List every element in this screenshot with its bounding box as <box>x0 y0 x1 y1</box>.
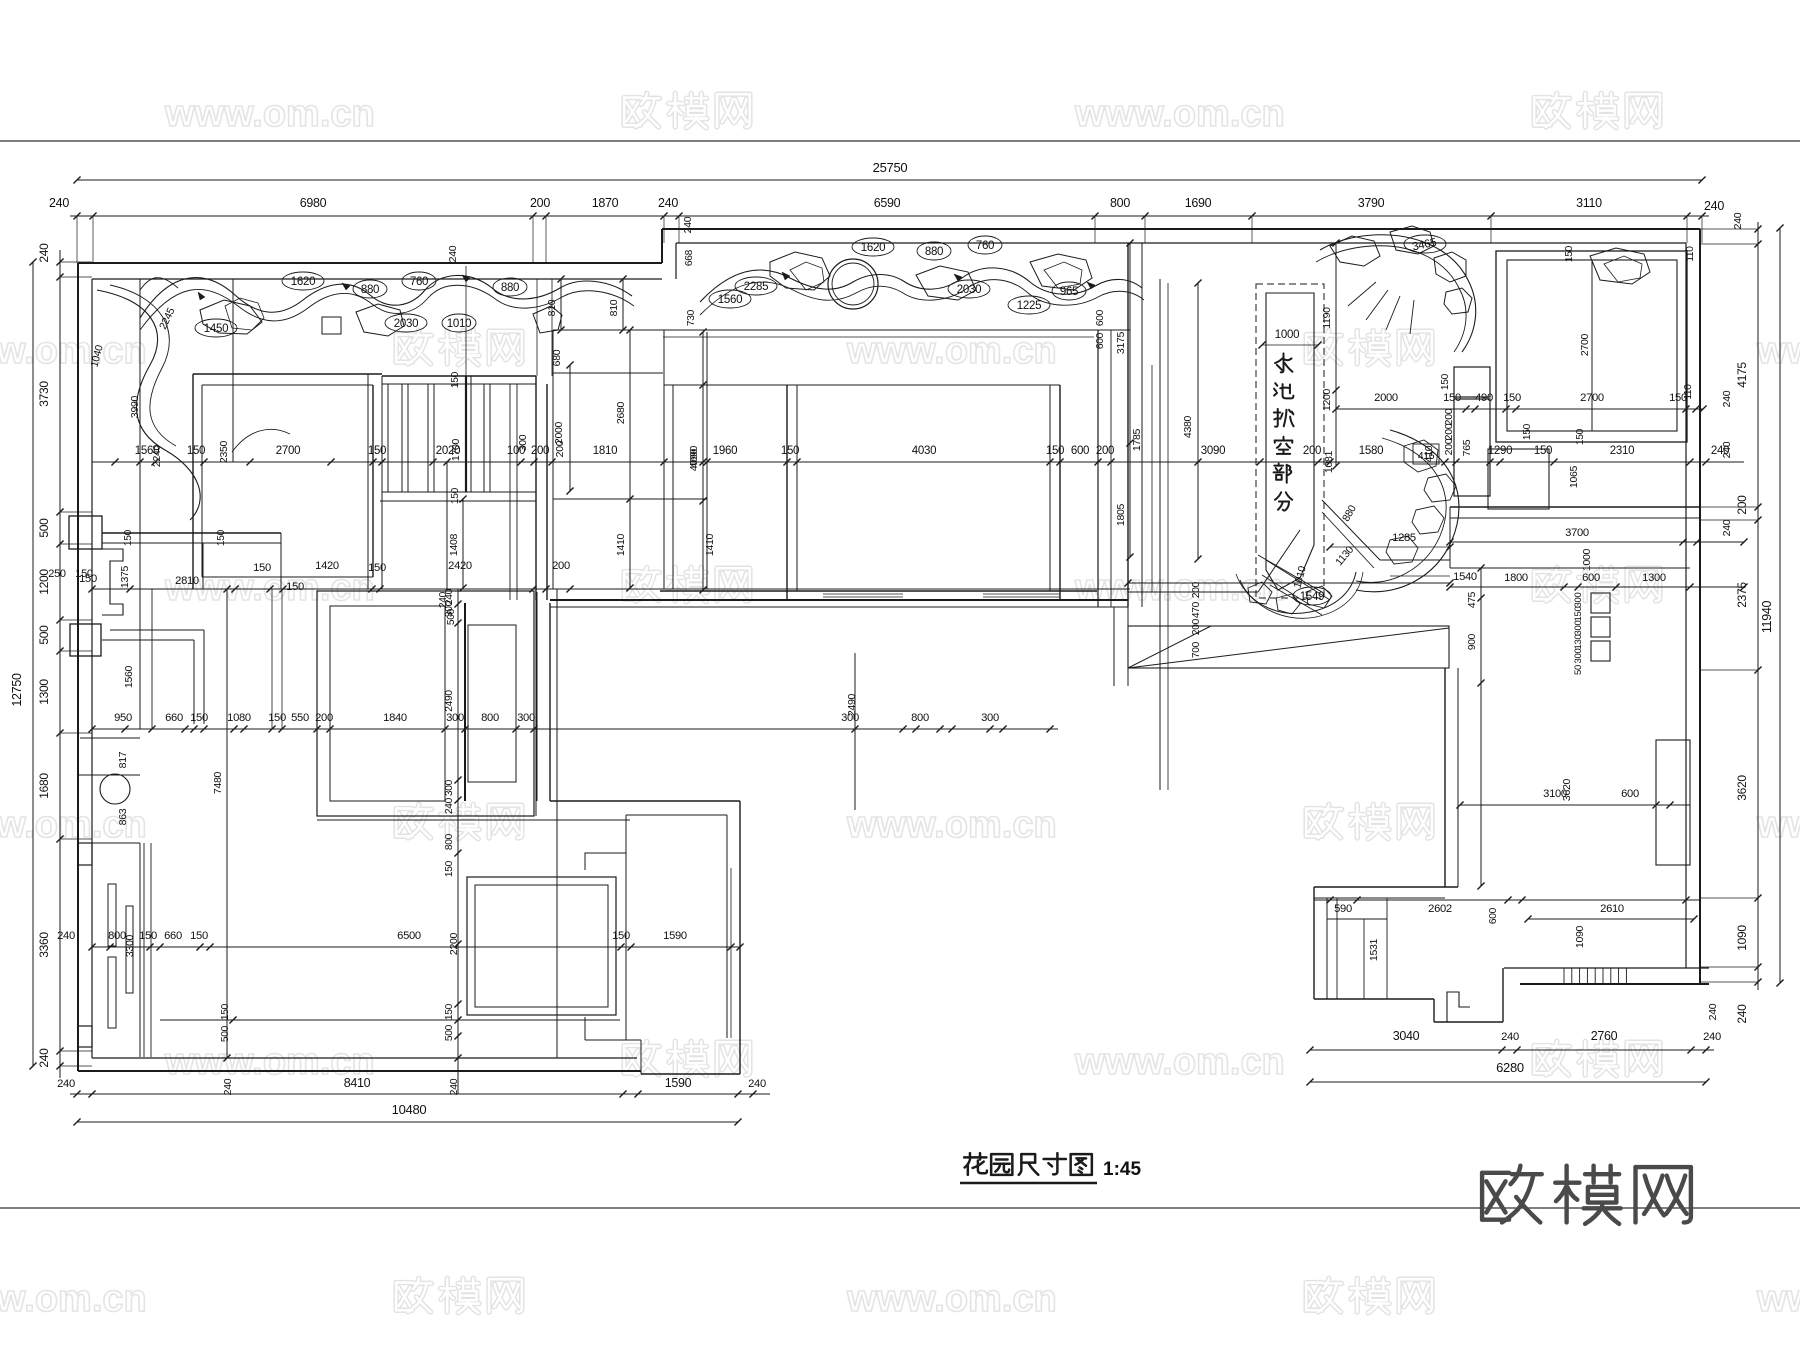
svg-text:240: 240 <box>1721 519 1733 536</box>
svg-text:500: 500 <box>220 1025 231 1042</box>
svg-text:150: 150 <box>190 712 208 724</box>
ramp area <box>1097 606 1128 608</box>
top dimension chain <box>70 215 1709 217</box>
svg-text:150: 150 <box>190 930 208 942</box>
svg-text:200: 200 <box>1096 445 1114 457</box>
svg-text:1805: 1805 <box>1115 503 1127 526</box>
svg-text:150: 150 <box>450 371 461 388</box>
svg-text:130: 130 <box>1573 635 1584 650</box>
pool diagonal walk <box>1322 500 1450 560</box>
svg-text:150: 150 <box>216 529 227 546</box>
svg-text:150: 150 <box>450 487 461 504</box>
svg-text:500: 500 <box>37 518 51 538</box>
left thin fixtures <box>108 884 116 946</box>
svg-text:300: 300 <box>1573 649 1584 664</box>
mid horizontal y820 <box>317 819 630 821</box>
svg-text:600: 600 <box>1582 572 1600 584</box>
svg-text:810: 810 <box>608 299 620 316</box>
room 4030 walls <box>786 385 788 600</box>
svg-text:1300: 1300 <box>1642 572 1666 584</box>
svg-text:150: 150 <box>253 562 271 574</box>
left dimension chain <box>59 250 61 1078</box>
svg-text:416: 416 <box>1418 450 1435 462</box>
stairs bottom <box>382 491 536 493</box>
svg-text:2030: 2030 <box>957 284 981 296</box>
svg-text:470: 470 <box>1191 601 1202 618</box>
svg-text:1800: 1800 <box>1504 572 1528 584</box>
svg-text:730: 730 <box>686 309 697 326</box>
svg-text:1620: 1620 <box>861 242 885 254</box>
svg-text:6980: 6980 <box>300 196 327 210</box>
svg-text:50: 50 <box>1573 665 1584 675</box>
svg-text:1870: 1870 <box>592 196 619 210</box>
svg-text:150: 150 <box>220 1003 231 1020</box>
svg-text:150: 150 <box>1046 445 1064 457</box>
right dim extension lines <box>1700 228 1758 230</box>
svg-text:3990: 3990 <box>129 395 141 418</box>
svg-text:10480: 10480 <box>392 1102 427 1117</box>
svg-text:2030: 2030 <box>394 318 418 330</box>
vine big S-curve left <box>97 290 200 520</box>
svg-text:2700: 2700 <box>1579 333 1591 356</box>
vertical dim x227 7480 <box>226 589 228 1058</box>
wall column markers <box>78 843 92 865</box>
terrace bottom right <box>1504 967 1709 969</box>
svg-text:863: 863 <box>117 808 129 825</box>
pool text <box>1275 353 1292 372</box>
rooms right of stairs <box>663 330 665 589</box>
svg-text:240: 240 <box>49 196 69 210</box>
svg-text:760: 760 <box>410 276 428 288</box>
vertical dim x1198 <box>1197 283 1199 559</box>
svg-text:3700: 3700 <box>1565 527 1589 539</box>
left band rooms 810 <box>552 330 554 589</box>
svg-text:1285: 1285 <box>1392 532 1416 544</box>
svg-text:1408: 1408 <box>448 533 460 556</box>
svg-text:240: 240 <box>37 243 51 263</box>
svg-text:11940: 11940 <box>1760 600 1774 633</box>
svg-text:3090: 3090 <box>1201 445 1225 457</box>
svg-text:240: 240 <box>57 930 75 942</box>
svg-text:817: 817 <box>117 751 129 768</box>
svg-text:150: 150 <box>1522 423 1533 440</box>
svg-text:240: 240 <box>37 1048 51 1068</box>
pool label 1000 <box>1262 344 1318 346</box>
svg-text:150: 150 <box>368 562 386 574</box>
svg-text:550: 550 <box>291 712 309 724</box>
bottom right outline <box>1314 998 1434 1000</box>
svg-text:2000: 2000 <box>553 421 565 444</box>
svg-text:110: 110 <box>1685 246 1696 262</box>
left dim extension lines <box>60 261 92 263</box>
wall box 1 <box>69 516 102 549</box>
svg-text:240: 240 <box>1501 1031 1519 1043</box>
svg-text:240: 240 <box>1711 445 1729 457</box>
vertical dims 810 <box>560 279 562 330</box>
svg-text:200: 200 <box>1191 618 1202 635</box>
svg-text:200: 200 <box>530 196 550 210</box>
svg-text:1:45: 1:45 <box>1103 1159 1141 1180</box>
svg-text:600: 600 <box>1095 332 1106 349</box>
pool bottom fan <box>1258 555 1322 592</box>
chain D y947 <box>92 946 740 948</box>
svg-text:1960: 1960 <box>713 445 737 457</box>
left wall <box>77 263 79 1071</box>
svg-text:300: 300 <box>981 712 999 724</box>
room 800 sub <box>468 625 516 782</box>
svg-text:600: 600 <box>1488 907 1499 924</box>
chain 1285 <box>1330 546 1450 548</box>
svg-text:300: 300 <box>444 779 455 796</box>
svg-text:2350: 2350 <box>218 440 230 463</box>
svg-text:150: 150 <box>1443 392 1461 404</box>
svg-text:965: 965 <box>1060 286 1078 298</box>
annex notch <box>585 853 626 870</box>
svg-text:2680: 2680 <box>615 401 627 424</box>
chain C y729 <box>92 728 1058 730</box>
wall right bottom section <box>1314 886 1458 888</box>
svg-text:4090: 4090 <box>688 448 700 471</box>
svg-text:200: 200 <box>1443 438 1455 455</box>
svg-text:668: 668 <box>684 249 695 266</box>
svg-text:4175: 4175 <box>1735 362 1749 388</box>
svg-text:2490: 2490 <box>846 693 858 716</box>
svg-text:150: 150 <box>444 860 455 877</box>
chain 1540 line <box>1128 582 1450 584</box>
vertical dim x630 <box>629 330 631 588</box>
vine hook top-right corner <box>1320 235 1476 352</box>
chain y408 top right <box>1336 408 1703 410</box>
rocks top-right arc <box>1330 236 1380 266</box>
svg-text:2375: 2375 <box>1735 582 1749 608</box>
svg-text:600: 600 <box>1095 309 1106 326</box>
svg-text:600: 600 <box>1621 788 1639 800</box>
svg-text:110: 110 <box>1683 384 1694 400</box>
svg-text:150: 150 <box>1440 373 1451 390</box>
svg-text:950: 950 <box>114 712 132 724</box>
svg-text:3175: 3175 <box>1115 331 1127 354</box>
svg-text:1190: 1190 <box>1321 307 1333 329</box>
svg-text:700: 700 <box>1191 641 1202 658</box>
chain 3100 <box>1460 804 1690 806</box>
label 416 box <box>1413 444 1439 464</box>
svg-text:240: 240 <box>57 1078 75 1090</box>
svg-text:150: 150 <box>1503 392 1521 404</box>
svg-text:1200: 1200 <box>1321 388 1333 411</box>
svg-text:150: 150 <box>444 1003 455 1020</box>
svg-text:2602: 2602 <box>1428 903 1452 915</box>
svg-text:880: 880 <box>501 282 519 294</box>
room 1290 box <box>1488 449 1549 509</box>
svg-text:150: 150 <box>286 581 304 593</box>
svg-text:1620: 1620 <box>291 276 315 288</box>
band dim extension verticals <box>465 266 467 376</box>
right 600 planter <box>1656 740 1690 865</box>
svg-text:7480: 7480 <box>212 771 224 794</box>
overall left dimension 12750 <box>32 262 34 1066</box>
chain A y462 <box>92 461 1744 463</box>
svg-text:1450: 1450 <box>204 323 228 335</box>
chain B y589 <box>92 588 1130 590</box>
right room 3090 edge <box>1128 591 1258 593</box>
room block 1840 outer <box>317 591 534 816</box>
svg-text:2760: 2760 <box>1591 1029 1618 1043</box>
mid-left wall y533 <box>102 532 281 534</box>
vine scroll left band <box>140 275 632 318</box>
svg-text:2700: 2700 <box>276 445 300 457</box>
line y1020 <box>160 1019 620 1021</box>
overall right dimension 11940 <box>1779 228 1781 983</box>
svg-text:240: 240 <box>444 797 455 814</box>
svg-text:300: 300 <box>1573 593 1584 608</box>
svg-text:4030: 4030 <box>912 445 936 457</box>
svg-text:660: 660 <box>164 930 182 942</box>
svg-text:660: 660 <box>165 712 183 724</box>
svg-text:300: 300 <box>517 434 529 451</box>
svg-text:680: 680 <box>551 349 563 366</box>
svg-text:1410: 1410 <box>615 533 627 556</box>
rocks right band <box>770 252 830 290</box>
big logo <box>1482 1166 1542 1223</box>
svg-text:2310: 2310 <box>1610 445 1634 457</box>
title garden dimension plan <box>964 1153 987 1175</box>
vertical dim 1190 <box>1335 243 1337 466</box>
svg-text:240: 240 <box>748 1078 766 1090</box>
sun rays <box>1366 290 1388 320</box>
svg-text:500: 500 <box>444 1024 455 1041</box>
svg-text:1560: 1560 <box>718 294 742 306</box>
svg-text:240: 240 <box>1732 212 1744 229</box>
bottom-left wall <box>78 1070 641 1072</box>
svg-text:2285: 2285 <box>744 281 768 293</box>
svg-text:475: 475 <box>1467 591 1478 608</box>
svg-text:600: 600 <box>1071 445 1089 457</box>
svg-text:800: 800 <box>911 712 929 724</box>
chain 3700 <box>1450 541 1744 543</box>
big right square room <box>1496 251 1687 442</box>
svg-text:2000: 2000 <box>1374 392 1398 404</box>
svg-text:3620: 3620 <box>1561 778 1573 801</box>
svg-text:3110: 3110 <box>1576 196 1602 210</box>
wall 200 right <box>1450 506 1700 508</box>
bottom-right overall 6280 <box>1310 1081 1706 1083</box>
svg-text:150: 150 <box>1564 245 1575 262</box>
svg-text:2420: 2420 <box>448 560 472 572</box>
svg-text:1680: 1680 <box>37 773 51 799</box>
wall 1098 1111 <box>1097 330 1099 607</box>
svg-text:800: 800 <box>481 712 499 724</box>
top dim extension lines <box>76 216 78 263</box>
terrace stairs hatch <box>1563 968 1565 984</box>
garden band inner edge left <box>139 279 141 729</box>
svg-text:1840: 1840 <box>383 712 407 724</box>
svg-text:150: 150 <box>781 445 799 457</box>
vine arrows right <box>782 272 790 280</box>
svg-text:8410: 8410 <box>344 1076 371 1090</box>
svg-text:1090: 1090 <box>1574 925 1586 948</box>
thick divider <box>464 603 466 801</box>
three planters right <box>1591 593 1610 613</box>
svg-text:240: 240 <box>658 196 678 210</box>
svg-text:3790: 3790 <box>1358 196 1385 210</box>
left band arrows arcs <box>140 278 178 290</box>
svg-text:1410: 1410 <box>704 533 716 556</box>
top border line <box>0 140 1800 142</box>
right mid horizontal 568 <box>1450 567 1690 569</box>
svg-text:200: 200 <box>531 445 549 457</box>
svg-text:300: 300 <box>444 600 455 617</box>
outer wall jog <box>661 229 663 263</box>
svg-text:500: 500 <box>37 625 51 645</box>
svg-text:1290: 1290 <box>1488 445 1512 457</box>
svg-text:1065: 1065 <box>1568 465 1580 488</box>
svg-text:240: 240 <box>1735 1004 1749 1024</box>
svg-text:1300: 1300 <box>37 679 51 705</box>
svg-text:200: 200 <box>1303 445 1321 457</box>
svg-text:880: 880 <box>925 246 943 258</box>
interior room block top-left <box>193 373 382 375</box>
annex 1590 <box>550 800 740 802</box>
chain 1800 600 1300 <box>1450 586 1744 588</box>
tree circle <box>100 774 130 804</box>
room interior lower left <box>467 877 616 1015</box>
svg-text:200: 200 <box>1443 408 1455 425</box>
svg-text:150: 150 <box>612 930 630 942</box>
svg-text:4380: 4380 <box>1182 415 1194 438</box>
svg-text:150: 150 <box>75 568 93 580</box>
svg-text:590: 590 <box>1334 903 1352 915</box>
vine arrows left <box>198 292 205 300</box>
chain 2602 <box>1314 899 1700 901</box>
overall top dimension 25750 <box>77 179 1702 181</box>
svg-text:1549: 1549 <box>1300 591 1324 603</box>
svg-text:800: 800 <box>444 833 455 850</box>
svg-text:2490: 2490 <box>444 690 455 712</box>
svg-text:150: 150 <box>268 712 286 724</box>
svg-text:1080: 1080 <box>227 712 251 724</box>
right section verticals <box>1151 365 1153 592</box>
svg-text:240: 240 <box>1721 390 1733 407</box>
svg-text:300: 300 <box>1573 621 1584 636</box>
vine scroll right band <box>700 268 1142 302</box>
1540 label <box>1390 575 1450 577</box>
svg-text:1420: 1420 <box>315 560 339 572</box>
bottom right room interior <box>1336 898 1338 999</box>
right wall <box>1699 229 1701 984</box>
svg-text:200: 200 <box>552 560 570 572</box>
arc rockery right-center <box>1356 430 1459 592</box>
svg-text:1225: 1225 <box>1017 300 1041 312</box>
svg-text:1810: 1810 <box>593 445 617 457</box>
svg-text:240: 240 <box>1703 1031 1721 1043</box>
dims 475 900 <box>1480 568 1482 886</box>
bottom dimension chain 8410 <box>70 1093 770 1095</box>
svg-text:1590: 1590 <box>665 1076 692 1090</box>
svg-text:6590: 6590 <box>874 196 901 210</box>
svg-text:25750: 25750 <box>873 160 908 175</box>
svg-text:12750: 12750 <box>10 673 24 707</box>
svg-text:150: 150 <box>187 445 205 457</box>
rocks left band <box>200 300 262 334</box>
bottom-right chain 3040 240 2760 240 <box>1310 1049 1714 1051</box>
svg-text:200: 200 <box>1191 581 1202 598</box>
bottom border line <box>0 1207 1800 1209</box>
ramp left wall pair <box>1113 607 1115 686</box>
svg-text:900: 900 <box>1467 633 1478 650</box>
svg-text:760: 760 <box>976 240 994 252</box>
svg-text:1000: 1000 <box>1275 329 1299 341</box>
vertical dim x458 column <box>457 589 459 1094</box>
verticals 510 517 <box>509 384 511 600</box>
outer wall top-left section <box>78 262 662 264</box>
svg-text:150: 150 <box>368 445 386 457</box>
svg-text:240: 240 <box>222 1078 234 1095</box>
vertical dim x570 2000 <box>569 365 571 491</box>
outer wall top-right section <box>662 228 1700 230</box>
pool dashed boundary <box>1256 284 1324 598</box>
double circle feature <box>828 259 878 309</box>
svg-text:2810: 2810 <box>175 575 199 587</box>
svg-text:765: 765 <box>1461 439 1473 456</box>
dim bubbles band <box>282 272 324 290</box>
bottom overall 10480 <box>77 1121 738 1123</box>
svg-text:240: 240 <box>447 245 459 262</box>
svg-text:1590: 1590 <box>663 930 687 942</box>
svg-text:1375: 1375 <box>119 565 131 588</box>
wall zigzag between boxes <box>102 549 123 615</box>
stair rail <box>465 376 467 492</box>
svg-text:1090: 1090 <box>1735 925 1749 951</box>
right section left wall <box>1127 243 1129 607</box>
vertical dim x463 <box>462 499 464 588</box>
svg-text:3620: 3620 <box>1735 775 1749 801</box>
svg-text:3730: 3730 <box>37 381 51 407</box>
svg-text:240: 240 <box>1704 199 1724 213</box>
mid-section bottom wall with windows <box>660 590 1097 592</box>
svg-text:300: 300 <box>517 712 535 724</box>
vertical dim x1130 <box>1129 243 1131 557</box>
svg-text:1560: 1560 <box>123 665 135 688</box>
corridor 1560 walls <box>110 629 204 631</box>
svg-text:1690: 1690 <box>1185 196 1212 210</box>
band bottom line right part <box>553 329 1130 331</box>
right dimension chain <box>1757 222 1759 990</box>
svg-text:1010: 1010 <box>447 318 471 330</box>
pool bottom rocks arc <box>1240 572 1356 613</box>
svg-text:1540: 1540 <box>1453 571 1477 583</box>
svg-text:3040: 3040 <box>1393 1029 1420 1043</box>
svg-text:1531: 1531 <box>1368 938 1380 961</box>
svg-text:240: 240 <box>1707 1003 1719 1020</box>
svg-text:6280: 6280 <box>1496 1060 1524 1075</box>
svg-text:1580: 1580 <box>1359 445 1383 457</box>
svg-text:250: 250 <box>48 568 66 580</box>
svg-text:880: 880 <box>361 284 379 296</box>
svg-text:200: 200 <box>1735 495 1749 515</box>
svg-text:150: 150 <box>1573 607 1584 622</box>
svg-text:150: 150 <box>139 930 157 942</box>
room 1840 inner <box>330 606 445 801</box>
svg-text:800: 800 <box>1110 196 1130 210</box>
square divider <box>1591 260 1593 431</box>
long verticals mid <box>556 589 558 1058</box>
svg-text:1700: 1700 <box>450 438 462 461</box>
wall below ramp <box>1444 668 1446 887</box>
stairs block <box>382 375 536 377</box>
wall box 2 <box>70 624 101 656</box>
svg-text:6500: 6500 <box>397 930 421 942</box>
svg-text:200: 200 <box>1443 423 1455 440</box>
